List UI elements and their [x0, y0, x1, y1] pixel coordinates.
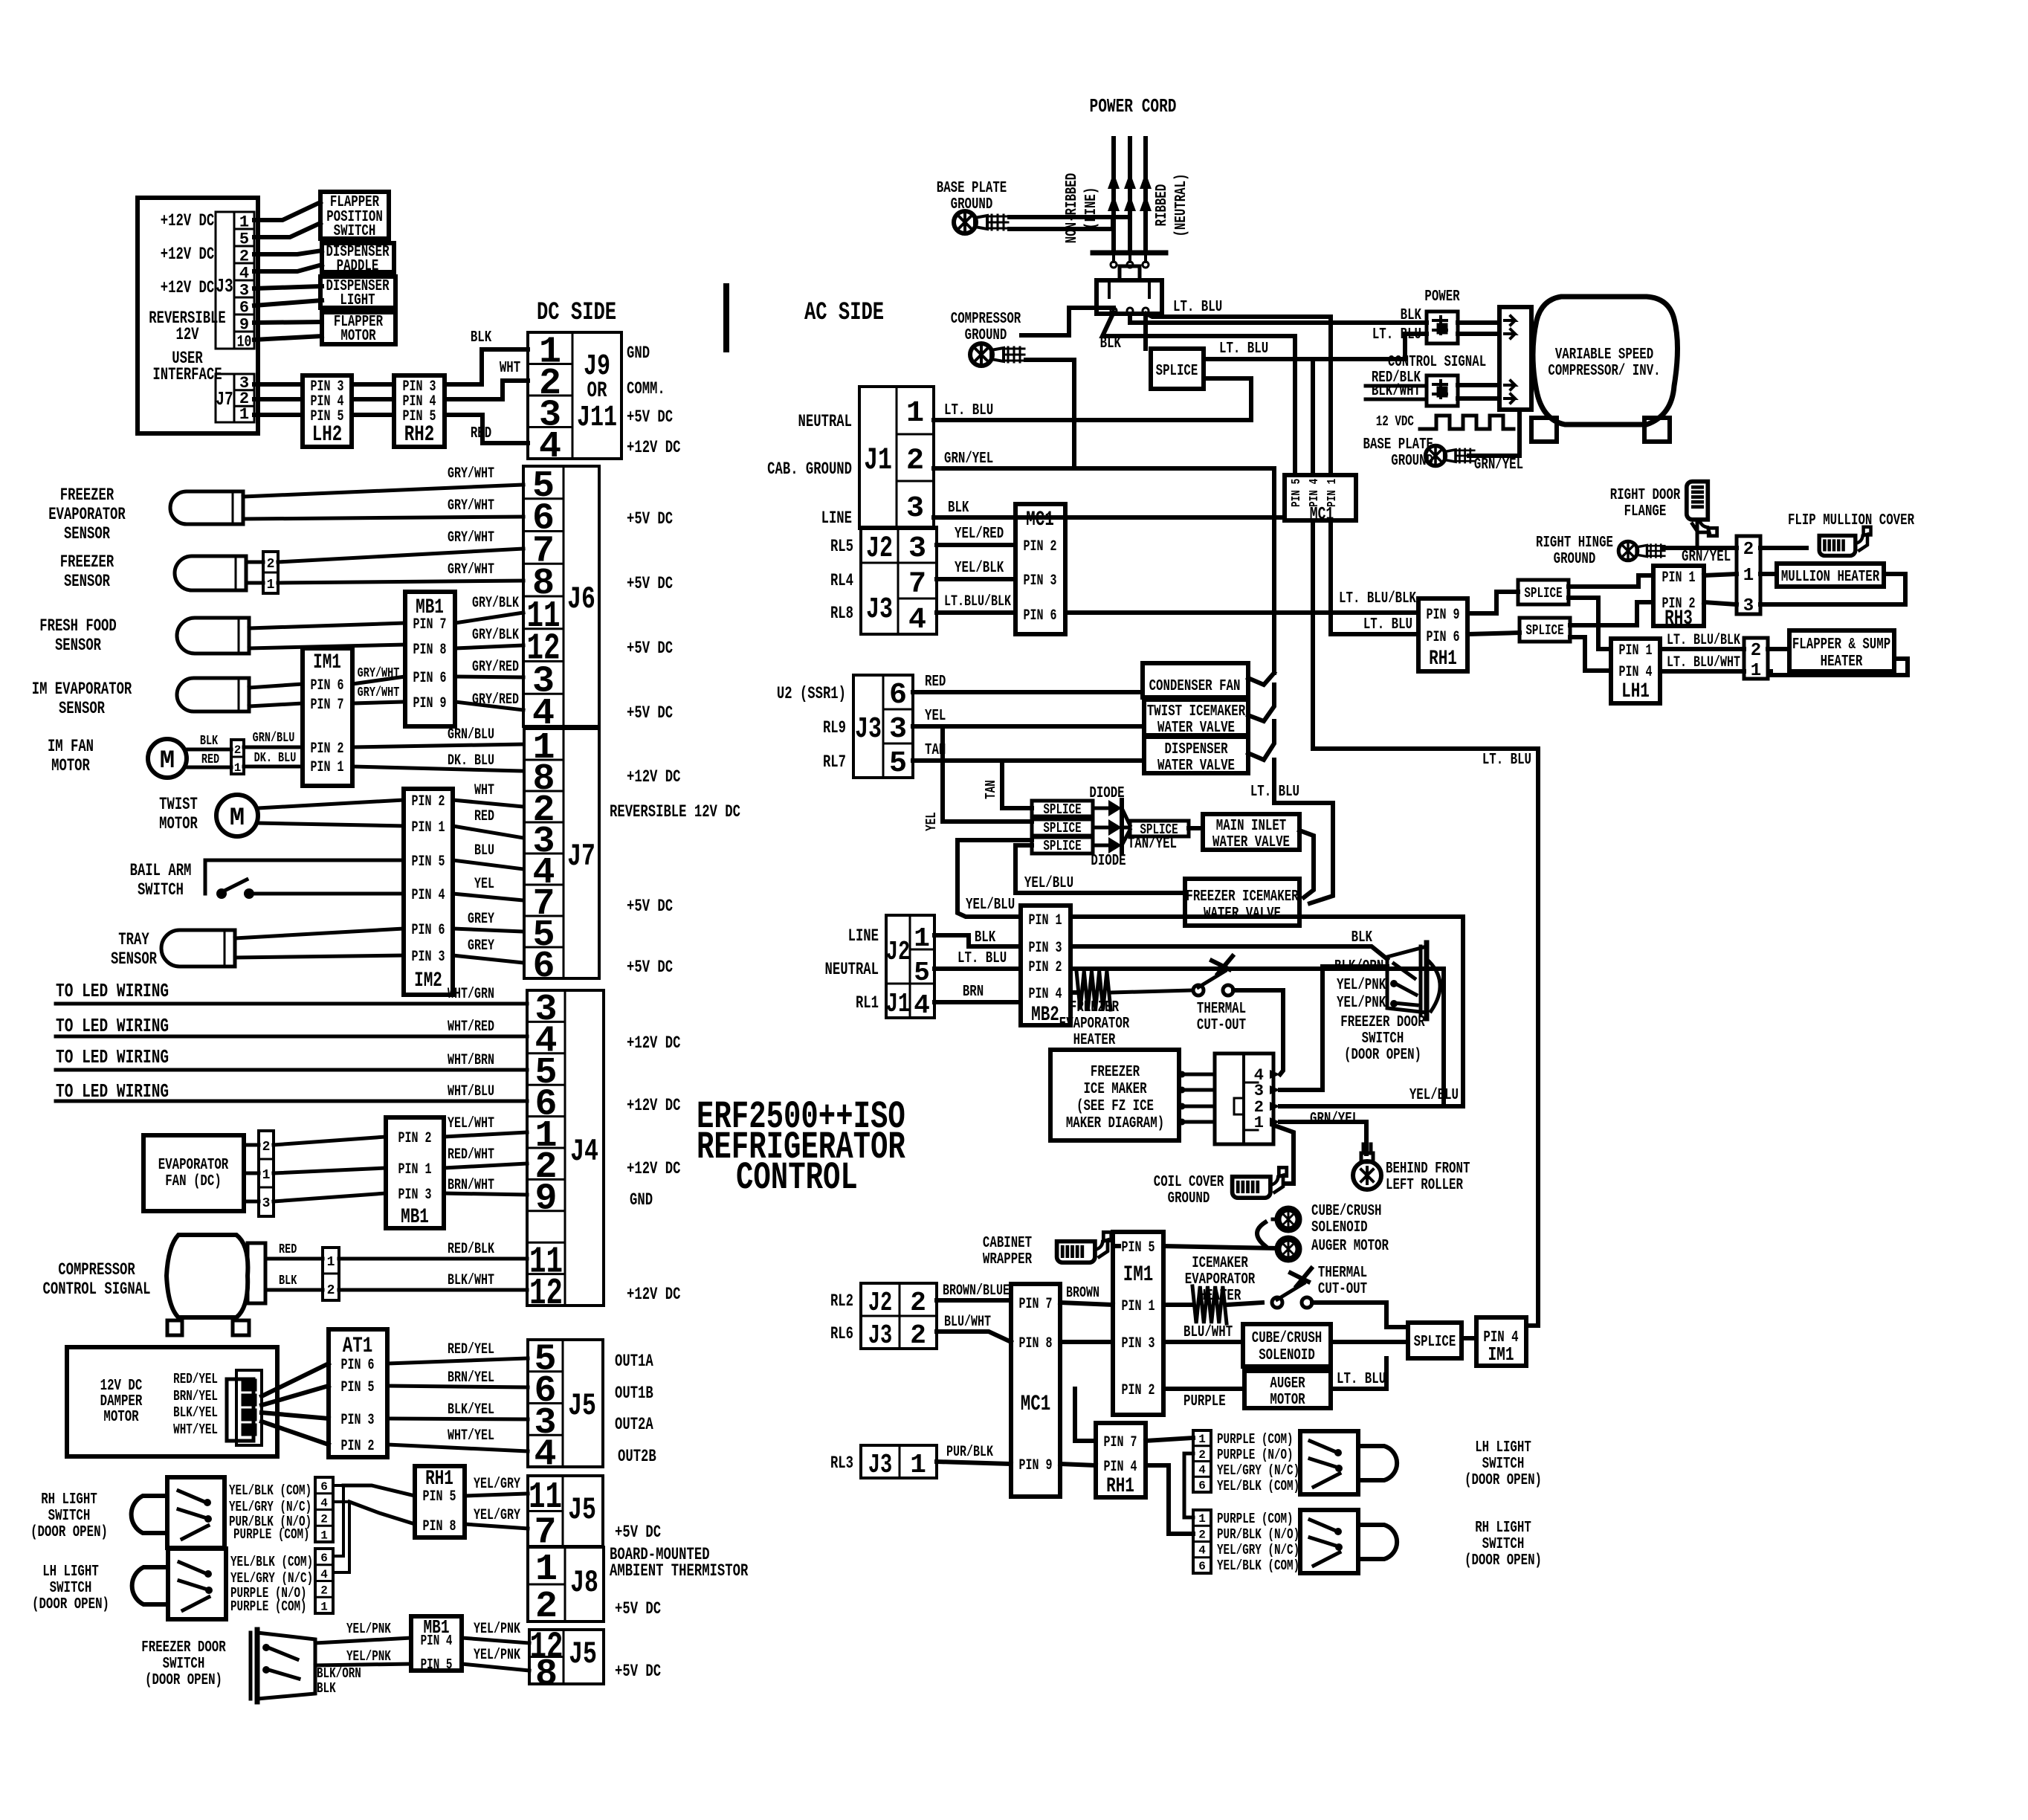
svg-text:1: 1: [914, 923, 930, 954]
svg-text:FAN (DC): FAN (DC): [165, 1173, 222, 1190]
svg-text:PIN 4: PIN 4: [1619, 664, 1653, 681]
svg-text:M: M: [160, 747, 175, 775]
wire IM2 pin2 WHT to J7-2: [453, 800, 523, 807]
wire RH1 pin4 to RH switch connector: [1146, 1465, 1193, 1534]
damper motor plug: [227, 1379, 253, 1441]
svg-text:LINE: LINE: [821, 509, 852, 528]
svg-text:12 VDC: 12 VDC: [1376, 413, 1414, 430]
wire AT1 pin6 RED/YEL to J5-5: [387, 1358, 528, 1364]
svg-text:GRY/WHT: GRY/WHT: [358, 685, 400, 700]
splice (mullion 1): [1518, 580, 1569, 604]
svg-text:PIN 5: PIN 5: [421, 1656, 453, 1673]
svg-text:4: 4: [908, 604, 926, 637]
svg-text:FREEZER: FREEZER: [60, 485, 114, 505]
wire J3-6 to dispenser light: [254, 300, 322, 306]
svg-text:J1: J1: [864, 442, 892, 478]
svg-text:AUGER MOTOR: AUGER MOTOR: [1311, 1238, 1389, 1255]
svg-text:MOTOR: MOTOR: [1270, 1392, 1305, 1409]
freezer icemaker water valve box: [1185, 879, 1299, 926]
svg-text:5: 5: [914, 958, 930, 988]
svg-text:SENSOR: SENSOR: [64, 524, 110, 543]
connector 2/1 (flapper heater): [1744, 638, 1768, 679]
svg-text:CONDENSER FAN: CONDENSER FAN: [1149, 678, 1241, 695]
wire to condenser bracket (GRN/YEL trunk): [1074, 468, 1274, 673]
svg-text:FREEZER: FREEZER: [60, 552, 114, 572]
wire J3-1 PUR/BLK to MC1 pin9: [937, 1462, 1011, 1464]
svg-text:(NEUTRAL): (NEUTRAL): [1173, 173, 1190, 236]
svg-text:LINE: LINE: [848, 926, 879, 946]
svg-text:GROUND: GROUND: [1168, 1190, 1210, 1207]
svg-text:TO LED WIRING: TO LED WIRING: [56, 980, 169, 1002]
wire AT1 pin5 BRN/YEL to J5-6: [387, 1386, 528, 1387]
RH light switch (AC): [1300, 1510, 1358, 1573]
wire MB1 pin2 YEL/WHT to J4-1: [444, 1132, 527, 1137]
wires control switch to inverter connector: [1458, 383, 1499, 387]
wire sensor to J6-6 GRY/WHT: [243, 517, 523, 519]
svg-text:4: 4: [914, 990, 930, 1021]
connector LH2: [303, 375, 352, 447]
PIN 4 IM1 box: [1476, 1317, 1526, 1366]
svg-text:GRN/BLU: GRN/BLU: [448, 726, 494, 743]
svg-text:RL4: RL4: [830, 571, 853, 590]
svg-text:PIN 1: PIN 1: [398, 1161, 432, 1178]
svg-text:BLK/ORN: BLK/ORN: [317, 1665, 361, 1682]
svg-text:BLK: BLK: [1401, 307, 1422, 324]
svg-text:RED: RED: [474, 808, 494, 825]
hook wires RH connector to LH connector and RH1: [333, 1485, 343, 1556]
svg-text:SPLICE: SPLICE: [1156, 363, 1198, 380]
svg-text:GRY/BLK: GRY/BLK: [472, 595, 519, 612]
svg-text:RIGHT HINGE: RIGHT HINGE: [1536, 535, 1613, 552]
svg-text:FLAPPER & SUMP: FLAPPER & SUMP: [1792, 636, 1890, 654]
connector J3 (RL3): [861, 1445, 937, 1478]
wire IM1 pin1 BROWN with icemaker evap heater: [1163, 1303, 1192, 1307]
svg-text:+5V DC: +5V DC: [627, 509, 673, 529]
wire J2-3 YEL/RED to MC1 pin2: [937, 543, 1015, 547]
connector J9 / J11: [528, 332, 621, 459]
wires fan connector to MB1: [274, 1137, 386, 1145]
svg-text:+5V DC: +5V DC: [615, 1599, 661, 1619]
connector J7: [524, 729, 599, 978]
connector J3 (U2 RL9 RL7): [853, 675, 913, 778]
svg-text:NEUTRAL: NEUTRAL: [798, 412, 852, 431]
freezer icemaker connector 4/3/2/1: [1215, 1053, 1273, 1144]
svg-text:POWER CORD: POWER CORD: [1090, 95, 1177, 117]
wire mullion heater loop to pin3: [1760, 574, 1905, 604]
svg-text:FLIP MULLION COVER: FLIP MULLION COVER: [1788, 512, 1914, 529]
connector J2/J1 (LINE NEUTRAL RL1): [886, 915, 934, 1018]
wire splice D to main inlet valve: [1189, 826, 1203, 830]
svg-text:GND: GND: [627, 343, 650, 363]
wire MB1 pin9 GRY/RED to J6-4: [455, 702, 523, 710]
svg-text:CUBE/CRUSH: CUBE/CRUSH: [1252, 1330, 1323, 1347]
dispenser light box: [320, 277, 395, 308]
svg-text:+12V DC: +12V DC: [627, 1033, 681, 1053]
svg-text:2: 2: [267, 557, 275, 572]
svg-text:MOTOR: MOTOR: [51, 756, 90, 775]
svg-text:RL8: RL8: [830, 604, 853, 623]
wires twist motor to IM2: [258, 800, 404, 808]
svg-text:PIN 5: PIN 5: [412, 853, 445, 871]
svg-text:WHT/YEL: WHT/YEL: [448, 1427, 494, 1445]
svg-text:LT. BLU: LT. BLU: [958, 950, 1007, 967]
svg-text:SOLENOID: SOLENOID: [1311, 1219, 1368, 1236]
wire icemaker pin1 to coil cover ground: [1273, 1125, 1294, 1184]
svg-text:PIN 1: PIN 1: [311, 759, 344, 776]
svg-text:CUT-OUT: CUT-OUT: [1318, 1281, 1367, 1298]
svg-text:BROWN/BLUE: BROWN/BLUE: [943, 1282, 1010, 1300]
behind front left roller lamp: [1353, 1144, 1381, 1190]
svg-text:PIN 2: PIN 2: [311, 740, 344, 758]
wire thermal cutout to icemaker connector pin4: [1233, 990, 1283, 1074]
connector MC1 (relay): [1015, 504, 1065, 634]
connector MB2: [1021, 906, 1070, 1025]
svg-text:IM1: IM1: [1488, 1343, 1514, 1366]
svg-text:J5: J5: [569, 1636, 597, 1672]
svg-text:PIN 2: PIN 2: [341, 1438, 375, 1455]
svg-text:4: 4: [239, 265, 249, 283]
wire flapper heater loop to pin1: [1771, 659, 1908, 675]
svg-text:YEL/RED: YEL/RED: [955, 526, 1004, 543]
svg-text:PURPLE (COM): PURPLE (COM): [1217, 1431, 1294, 1448]
svg-text:CUT-OUT: CUT-OUT: [1197, 1017, 1246, 1034]
YEL/BLU wire to MB2 pin1: [958, 840, 1032, 917]
svg-text:CAB. GROUND: CAB. GROUND: [767, 459, 852, 479]
wire RH2 pin3 BLK to J9-1: [445, 349, 528, 384]
svg-text:6: 6: [532, 946, 555, 988]
svg-text:POWER: POWER: [1424, 288, 1460, 306]
wire J3-2 BLU/WHT to MC1 pin8: [937, 1332, 1011, 1342]
svg-text:OUT2A: OUT2A: [615, 1415, 653, 1434]
svg-text:PIN 4: PIN 4: [1029, 986, 1062, 1003]
svg-text:J3: J3: [868, 1450, 892, 1480]
svg-text:6: 6: [889, 679, 907, 712]
svg-text:+12V DC: +12V DC: [627, 1096, 681, 1115]
svg-text:LH2: LH2: [312, 422, 343, 448]
svg-text:THERMAL: THERMAL: [1197, 1001, 1246, 1018]
mullion heater box: [1777, 564, 1884, 587]
wire PURPLE branch to RH1 pin7: [1075, 1389, 1096, 1441]
svg-text:J4: J4: [570, 1134, 598, 1169]
wire MB1 pin1 RED/WHT to J4-2: [444, 1164, 527, 1168]
wire MB1 pin7 GRY/BLK to J6-11: [455, 613, 523, 623]
wire splice to power switch LT. BLU: [1204, 334, 1427, 359]
svg-text:GRY/WHT: GRY/WHT: [448, 497, 494, 514]
svg-text:2: 2: [1751, 641, 1761, 661]
svg-text:J3: J3: [868, 1320, 892, 1351]
svg-text:LT. BLU: LT. BLU: [1363, 616, 1412, 633]
wires ice maker to connector: [1179, 1073, 1215, 1077]
svg-text:+12V DC: +12V DC: [627, 1159, 681, 1178]
svg-text:RED/WHT: RED/WHT: [448, 1146, 494, 1164]
svg-text:PIN 2: PIN 2: [1024, 538, 1057, 555]
connector J8: [528, 1547, 604, 1621]
svg-text:2: 2: [320, 1513, 328, 1526]
svg-text:BLU/WHT: BLU/WHT: [1183, 1324, 1233, 1341]
wire RH1 pin5 YEL/GRY to J5-11: [465, 1494, 528, 1496]
wire to J6-7 GRY/WHT: [278, 549, 523, 562]
wire IM2 pin5 BLU to J7-4: [453, 860, 523, 869]
svg-text:TRAY: TRAY: [118, 930, 149, 949]
svg-text:PIN 6: PIN 6: [413, 670, 447, 687]
wires base plate ground to cord: [1010, 215, 1126, 219]
svg-text:PIN 1: PIN 1: [1122, 1298, 1155, 1315]
svg-text:RED: RED: [201, 752, 219, 767]
svg-text:2: 2: [234, 743, 242, 757]
svg-text:PIN 3: PIN 3: [1029, 940, 1062, 957]
svg-text:MC1: MC1: [1026, 509, 1054, 532]
svg-text:+5V DC: +5V DC: [627, 407, 673, 427]
wire splice2 to RH3 pin2: [1570, 602, 1653, 625]
svg-text:GRY/WHT: GRY/WHT: [448, 529, 494, 546]
wire plug to power switch BLK: [1130, 314, 1405, 323]
svg-text:2: 2: [327, 1283, 335, 1298]
freezer ice maker box: [1050, 1050, 1179, 1140]
svg-text:+5V DC: +5V DC: [627, 703, 673, 723]
svg-text:+5V DC: +5V DC: [627, 897, 673, 916]
svg-text:FREEZER: FREEZER: [1070, 999, 1119, 1016]
wire BLK/ORN switch to icemaker pin3: [1280, 967, 1387, 1090]
svg-text:PIN 5: PIN 5: [1290, 479, 1304, 507]
svg-text:SENSOR: SENSOR: [64, 572, 110, 591]
svg-text:J7: J7: [216, 388, 233, 410]
svg-text:YEL: YEL: [923, 812, 940, 831]
svg-text:WHT/BRN: WHT/BRN: [448, 1052, 494, 1069]
svg-text:PIN 9: PIN 9: [413, 695, 447, 712]
svg-text:1: 1: [267, 578, 275, 593]
connector 2/1/3 (mullion): [1737, 536, 1760, 614]
connector AT1: [329, 1329, 387, 1457]
dispenser paddle box: [322, 243, 394, 272]
svg-text:SWITCH: SWITCH: [163, 1656, 205, 1673]
wire YEL/PNK to MB1 pin5: [315, 1664, 411, 1665]
wire MB1 pin5 YEL/PNK to J5-8: [462, 1664, 529, 1671]
connector J1: [859, 387, 934, 529]
svg-text:IM1: IM1: [1123, 1262, 1154, 1288]
svg-text:GRY/WHT: GRY/WHT: [358, 666, 400, 681]
svg-text:4: 4: [534, 1434, 556, 1477]
connector MC1 (icemaker): [1011, 1284, 1060, 1497]
svg-text:DC SIDE: DC SIDE: [537, 299, 616, 327]
svg-text:J2: J2: [866, 532, 893, 566]
wire MB1 pin6 GRY/RED to J6-3: [455, 677, 523, 677]
svg-text:YEL/PNK: YEL/PNK: [1337, 995, 1386, 1012]
svg-text:WHT/RED: WHT/RED: [448, 1019, 494, 1036]
svg-text:+12V DC: +12V DC: [627, 1285, 681, 1304]
thermal cut-out (icemaker): [1272, 1297, 1282, 1308]
svg-text:VARIABLE SPEED: VARIABLE SPEED: [1555, 346, 1653, 364]
svg-text:RL7: RL7: [823, 752, 846, 772]
svg-text:PIN 2: PIN 2: [412, 793, 445, 810]
svg-text:5: 5: [239, 230, 249, 249]
wire MC1 pin1 down to RH1 pin6 LT. BLU: [1331, 520, 1418, 634]
wire GRN/YEL icemaker pin1 to roller lamp: [1280, 1122, 1366, 1154]
svg-text:REVERSIBLE 12V DC: REVERSIBLE 12V DC: [610, 802, 740, 822]
svg-text:GROUND: GROUND: [965, 327, 1007, 344]
svg-text:LT. BLU: LT. BLU: [1372, 326, 1421, 343]
svg-text:MB2: MB2: [1031, 1004, 1059, 1027]
svg-text:WATER VALVE: WATER VALVE: [1157, 720, 1235, 737]
wires RH3 to 2-1-3 connector: [1704, 574, 1737, 575]
svg-text:PIN 6: PIN 6: [1427, 629, 1460, 646]
svg-text:1: 1: [262, 1168, 271, 1183]
wire IM1 pin6 GRY/WHT to MB1 pin6: [352, 677, 405, 684]
svg-text:DIODE: DIODE: [1089, 785, 1124, 802]
svg-text:M: M: [230, 804, 245, 833]
svg-text:GRY/RED: GRY/RED: [472, 659, 519, 676]
svg-text:J1: J1: [886, 989, 910, 1019]
svg-text:+5V DC: +5V DC: [615, 1523, 661, 1542]
svg-text:PIN 7: PIN 7: [1019, 1296, 1053, 1313]
wire GRN/YEL right hinge to connector: [1664, 546, 1737, 550]
svg-text:RL9: RL9: [823, 718, 846, 738]
svg-text:PURPLE (N/O): PURPLE (N/O): [1217, 1447, 1294, 1463]
YEL/BLU wire from splice C down to freezer icemaker valve: [1015, 845, 1185, 893]
wire DK. BLU to IM1 pin1: [244, 765, 303, 769]
svg-text:BLK/WHT: BLK/WHT: [448, 1272, 494, 1289]
svg-text:DAMPER: DAMPER: [100, 1393, 143, 1410]
wire IM1 pin2 GRN/BLU to J7-1: [352, 744, 523, 747]
wires tray sensor to IM2: [235, 929, 404, 938]
wire IM1 pin3 BLU/WHT to cube/crush box: [1163, 1340, 1243, 1344]
svg-text:LH LIGHT: LH LIGHT: [1475, 1439, 1531, 1456]
svg-text:BLU/WHT: BLU/WHT: [944, 1314, 991, 1331]
svg-text:GRN/BLU: GRN/BLU: [253, 731, 295, 746]
power cord bar: [1093, 251, 1166, 256]
wire splice2 to LH1 pin4: [1570, 637, 1611, 671]
svg-text:MOTOR: MOTOR: [159, 814, 198, 833]
svg-text:2: 2: [239, 248, 249, 266]
connector MC1 (top): [1285, 475, 1356, 520]
svg-text:SWITCH: SWITCH: [334, 223, 376, 240]
thermal cut-out (freezer): [1193, 985, 1204, 995]
svg-text:LT. BLU: LT. BLU: [1482, 752, 1531, 769]
svg-text:CONTROL SIGNAL: CONTROL SIGNAL: [43, 1280, 151, 1299]
svg-text:MAIN INLET: MAIN INLET: [1216, 818, 1287, 835]
svg-text:WATER VALVE: WATER VALVE: [1157, 758, 1235, 775]
wire GRN/YEL J1-2 to compressor ground: [934, 360, 1074, 468]
svg-text:LT. BLU: LT. BLU: [1219, 341, 1268, 358]
LT. BLU wire valves to freezer icemaker valve: [1274, 760, 1333, 903]
svg-text:YEL/GRY (N/C): YEL/GRY (N/C): [230, 1570, 313, 1587]
svg-text:FREEZER DOOR: FREEZER DOOR: [1340, 1014, 1425, 1031]
compressor wires RED BLK: [265, 1257, 323, 1261]
wire J3-5 TAN to dispenser valve: [913, 758, 1144, 763]
splice B: [1032, 819, 1093, 836]
svg-text:PIN 3: PIN 3: [412, 949, 445, 966]
svg-text:OUT1A: OUT1A: [615, 1352, 653, 1371]
wires to RH1 pins: [343, 1485, 415, 1496]
svg-text:+12V DC: +12V DC: [161, 211, 215, 230]
svg-text:1: 1: [1198, 1433, 1206, 1446]
svg-text:GRN/YEL: GRN/YEL: [1310, 1111, 1359, 1128]
svg-text:BLU: BLU: [474, 842, 494, 859]
svg-text:YEL/PNK: YEL/PNK: [474, 1647, 520, 1664]
svg-text:EVAPORATOR: EVAPORATOR: [48, 505, 126, 524]
wire IM2 pin3 GREY to J7-6: [453, 955, 523, 963]
wire J2-1 BLK to MB2 pin3: [934, 935, 1021, 946]
cube/crush solenoid + auger motor plugs: [1257, 1222, 1265, 1246]
svg-text:LT. BLU: LT. BLU: [1173, 299, 1222, 316]
svg-text:IM2: IM2: [414, 969, 442, 993]
wire J3-3 YEL to twist icemaker valve: [913, 724, 1144, 729]
svg-text:6: 6: [1198, 1479, 1206, 1492]
connector J5 (freezer door): [529, 1630, 604, 1684]
wire IM1 pin2 PURPLE to auger motor box: [1163, 1387, 1244, 1391]
svg-text:LEFT ROLLER: LEFT ROLLER: [1386, 1177, 1463, 1194]
svg-text:2: 2: [910, 1320, 926, 1351]
wire BLK J1-3 to MC1: [934, 515, 1285, 520]
wire MC1 pin6 LT. BLU/BLK long run to RH1 pin9: [1065, 610, 1418, 615]
condenser fan box: [1143, 663, 1248, 697]
svg-text:SPLICE: SPLICE: [1414, 1334, 1456, 1351]
svg-text:YEL/GRY (N/C): YEL/GRY (N/C): [1217, 1542, 1299, 1558]
connector J5 (outputs): [528, 1340, 603, 1467]
svg-text:WATER VALVE: WATER VALVE: [1204, 906, 1281, 923]
evaporator fan (DC) box: [143, 1135, 244, 1211]
svg-text:J8: J8: [570, 1565, 598, 1601]
svg-text:YEL/PNK: YEL/PNK: [346, 1621, 391, 1637]
svg-text:+5V DC: +5V DC: [627, 574, 673, 593]
svg-text:EVAPORATOR: EVAPORATOR: [1059, 1016, 1130, 1033]
svg-text:YEL: YEL: [474, 876, 494, 893]
splice D (TAN/YEL): [1130, 821, 1189, 836]
svg-text:MB1: MB1: [401, 1206, 429, 1229]
svg-text:BRN/YEL: BRN/YEL: [173, 1388, 218, 1404]
svg-text:J3: J3: [866, 593, 893, 627]
svg-text:10: 10: [237, 333, 252, 352]
svg-text:PIN 8: PIN 8: [423, 1518, 456, 1535]
wire IM2 pin1 RED to J7-3: [453, 826, 523, 838]
svg-text:PIN 2: PIN 2: [1122, 1382, 1155, 1399]
svg-text:PIN 5: PIN 5: [1122, 1239, 1155, 1256]
wires J7 to LH2: [254, 382, 303, 387]
svg-text:BEHIND FRONT: BEHIND FRONT: [1386, 1161, 1470, 1178]
svg-text:BLK: BLK: [1100, 335, 1122, 352]
svg-text:GREY: GREY: [468, 938, 494, 955]
wire RH2 pin4 WHT to J9-2: [445, 381, 528, 399]
wire LT. BLU plug to MC1 pin1: [1146, 314, 1331, 475]
wires LH2 to RH2: [352, 382, 394, 387]
variable speed compressor / inverter blob: [1533, 297, 1678, 425]
svg-text:YEL/GRY: YEL/GRY: [474, 1507, 520, 1524]
svg-text:2: 2: [1743, 540, 1754, 560]
svg-text:TWIST ICEMAKER: TWIST ICEMAKER: [1147, 703, 1246, 720]
svg-text:COMPRESSOR: COMPRESSOR: [951, 311, 1021, 328]
svg-text:(DOOR OPEN): (DOOR OPEN): [30, 1524, 108, 1541]
svg-text:6: 6: [320, 1480, 328, 1494]
wire plug pin3 into splice: [1143, 314, 1148, 349]
svg-text:PURPLE (COM): PURPLE (COM): [233, 1526, 310, 1543]
svg-text:1: 1: [234, 761, 242, 775]
svg-text:PIN 4: PIN 4: [1308, 479, 1322, 507]
svg-text:RH LIGHT: RH LIGHT: [1475, 1520, 1531, 1537]
svg-text:BRN/WHT: BRN/WHT: [448, 1177, 494, 1194]
svg-text:GRY/WHT: GRY/WHT: [448, 465, 494, 483]
svg-text:SWITCH: SWITCH: [1482, 1536, 1525, 1553]
svg-text:4: 4: [539, 426, 561, 468]
svg-text:PIN 4: PIN 4: [412, 887, 445, 904]
svg-text:PIN 1: PIN 1: [1662, 569, 1696, 587]
svg-text:TO LED WIRING: TO LED WIRING: [56, 1015, 169, 1037]
wire J3-9 to flapper motor: [254, 322, 322, 323]
power cord plug: [1120, 266, 1140, 280]
svg-text:(DOOR OPEN): (DOOR OPEN): [1465, 1472, 1542, 1489]
svg-text:OUT2B: OUT2B: [618, 1447, 656, 1466]
svg-text:SENSOR: SENSOR: [59, 699, 105, 718]
svg-text:BLK: BLK: [279, 1274, 297, 1288]
svg-text:RH LIGHT: RH LIGHT: [41, 1491, 97, 1508]
